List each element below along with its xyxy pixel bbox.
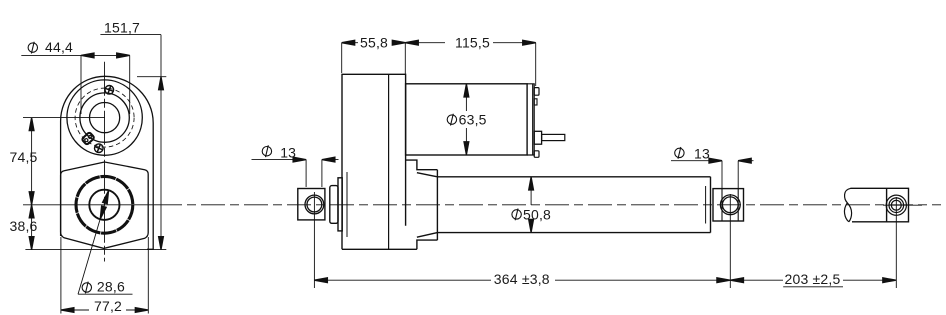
svg-text:63,5: 63,5 — [459, 112, 487, 128]
svg-text:151,7: 151,7 — [104, 19, 140, 35]
svg-text:28,6: 28,6 — [97, 279, 125, 295]
gearbox internal boss line — [346, 172, 348, 237]
svg-text:203 ±2,5: 203 ±2,5 — [785, 271, 841, 287]
connector block — [82, 132, 95, 145]
svg-text:115,5: 115,5 — [455, 35, 490, 51]
dim 74,5 — [31, 118, 33, 205]
svg-text:55,8: 55,8 — [360, 35, 388, 51]
tube gland line — [705, 186, 707, 224]
dim 38,6 — [31, 205, 33, 250]
collar — [330, 186, 338, 224]
motor top tab — [534, 88, 539, 96]
rear clevis — [298, 189, 325, 220]
gearbox face circle (44.4) — [80, 93, 129, 142]
gearbox block — [342, 74, 417, 249]
dim 151,7 — [25, 35, 166, 250]
dim phi 63,5 — [465, 84, 467, 155]
svg-text:44,4: 44,4 — [45, 39, 73, 55]
dim 115,5 — [405, 43, 535, 86]
end view: gearbox horizontal centerline — [23, 117, 105, 119]
distal rod end — [851, 188, 909, 222]
front clevis slot lines — [722, 189, 738, 221]
mounting flange plate — [338, 178, 342, 231]
gearbox inner boss circle — [90, 103, 120, 133]
svg-text:364 ±3,8: 364 ±3,8 — [494, 271, 550, 287]
front clevis hole — [720, 195, 740, 215]
dim phi 44,4 — [21, 55, 129, 114]
tube nut inner circle (28.6) — [89, 190, 119, 220]
end view body outline — [61, 76, 154, 249]
svg-text:77,2: 77,2 — [94, 298, 122, 314]
dim 77,2 — [61, 237, 148, 314]
motor shaft boss — [534, 131, 541, 144]
motor small tab — [534, 99, 537, 105]
dim phi 50,8 — [530, 177, 532, 233]
dim phi 13 front — [671, 161, 754, 189]
gearbox outer circle — [67, 80, 142, 155]
motor body — [406, 84, 527, 155]
screw bottom — [93, 142, 105, 154]
dim 364 — [314, 279, 730, 281]
distal hole centerlines — [895, 197, 897, 288]
motor shaft — [542, 134, 565, 140]
motor bottom tab — [534, 151, 539, 158]
screw top — [103, 84, 115, 96]
tube — [437, 177, 710, 233]
rear clevis hole vertical centerline / 364 extension — [313, 192, 315, 288]
bolt circle (dashed) — [75, 88, 134, 147]
tube nut thick ring — [76, 176, 133, 233]
svg-text:13: 13 — [280, 145, 296, 161]
end view hex flange — [61, 162, 149, 248]
front clevis — [713, 189, 744, 221]
motor end cap — [527, 84, 534, 155]
distal clevis hole — [886, 195, 906, 215]
dim 203 — [731, 280, 896, 287]
svg-text:13: 13 — [694, 145, 710, 161]
dim phi 28,6 leader — [78, 190, 133, 294]
front housing cone — [406, 160, 438, 249]
svg-text:74,5: 74,5 — [10, 149, 38, 165]
main horizontal centerline — [23, 204, 158, 206]
svg-text:50,8: 50,8 — [523, 207, 551, 223]
end view: vertical centerline — [104, 62, 106, 262]
rear clevis hole — [305, 195, 324, 214]
dim phi 13 rear — [252, 160, 339, 187]
gearbox internal line — [388, 74, 390, 249]
rod break symbol — [844, 188, 851, 222]
front clevis vertical centerline / extension — [729, 194, 731, 288]
svg-text:38,6: 38,6 — [10, 218, 38, 234]
dim 55,8 — [342, 43, 406, 74]
